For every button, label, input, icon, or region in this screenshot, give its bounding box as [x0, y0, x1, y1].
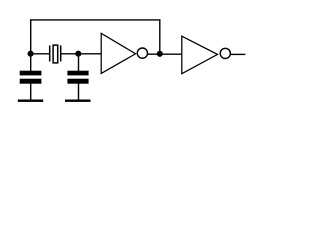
wire: C1 bottom lead [30, 83, 32, 99]
wire: node B down to C2 [78, 54, 80, 71]
wire: node A to crystal left plate [31, 53, 50, 55]
ground GND1 [18, 100, 43, 102]
capacitor C2 [67, 71, 88, 84]
crystal X1 [50, 45, 61, 63]
inverter U2 [182, 36, 231, 73]
wire: node B to inverter U1 input [79, 53, 102, 55]
inverter U1 [101, 33, 147, 73]
wire: left vertical from top corner through node A down to C1 [30, 19, 32, 71]
wire: crystal right plate to node B [61, 53, 79, 55]
wire: node C to inverter U2 input [160, 53, 182, 55]
wire: feedback top horizontal [30, 19, 161, 21]
wire: C2 bottom lead [78, 83, 80, 99]
wire: U1 output bubble to node C [148, 53, 160, 55]
junction dot node B [75, 51, 81, 57]
capacitor C1 [20, 71, 42, 84]
wire: feedback right vertical down to node C [159, 19, 161, 54]
ground GND2 [65, 100, 91, 102]
junction dot node C [157, 51, 163, 57]
wire: U2 output [231, 53, 245, 55]
junction dot node A [28, 51, 34, 57]
